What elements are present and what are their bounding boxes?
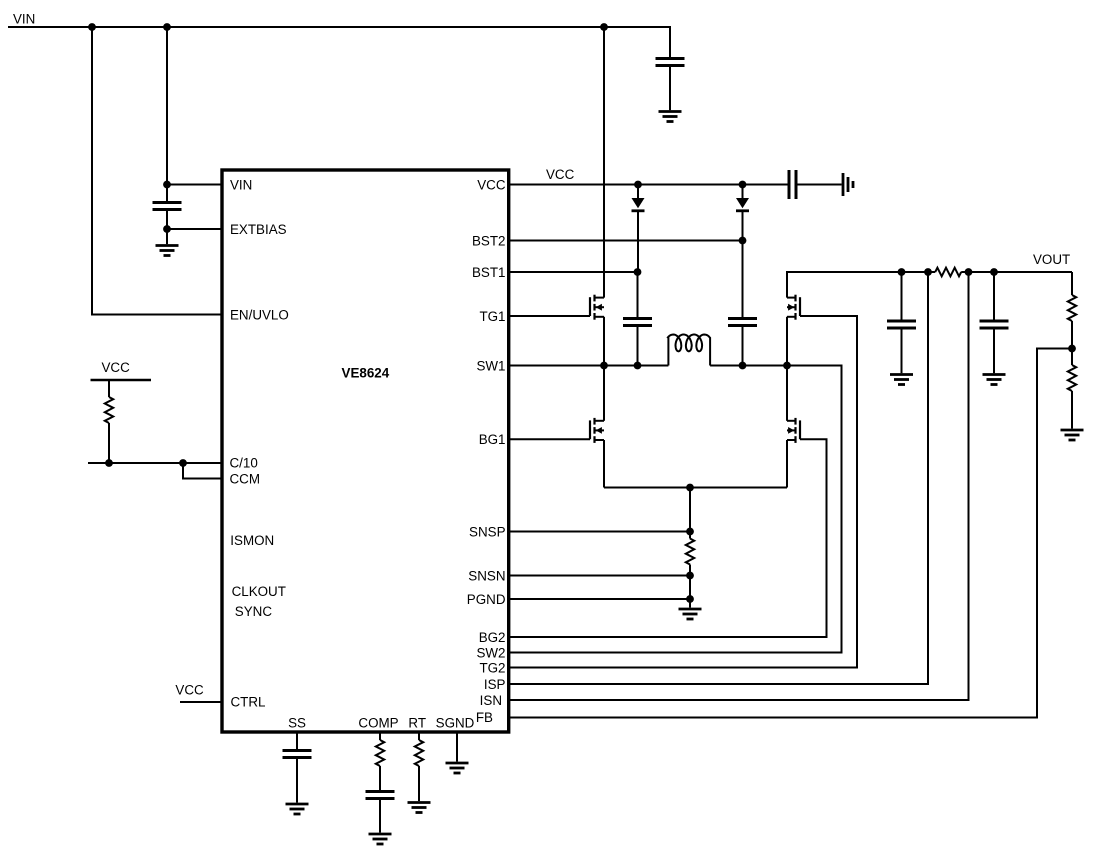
wire Q1 drain to VIN rail xyxy=(603,27,605,298)
node COUT1 junction xyxy=(898,268,906,276)
svg-text:SS: SS xyxy=(288,716,306,731)
transistor Q4 (BG2 low-side boost FET) xyxy=(794,418,796,425)
wire CVIN bottom lead xyxy=(166,211,168,229)
wire VOUT rail right of sense xyxy=(969,271,1073,273)
wire CBST1 top lead xyxy=(637,272,639,317)
svg-text:VCC: VCC xyxy=(102,360,131,375)
resistor RS (output sense, horizontal) xyxy=(935,268,961,277)
node common source junction xyxy=(686,484,694,492)
wire BG2 pin to Q4 gate xyxy=(509,439,827,637)
node RPULL junction xyxy=(105,459,113,467)
wire SGND pin lead xyxy=(456,732,458,762)
wire COUT1 bottom lead xyxy=(901,330,903,374)
wire D2 anode xyxy=(742,185,744,199)
svg-text:VIN: VIN xyxy=(230,177,252,192)
wire CIN bottom lead xyxy=(669,67,671,110)
svg-text:ISMON: ISMON xyxy=(230,533,274,548)
capacitor CVCC (VCC bypass, horizontal) xyxy=(788,170,791,199)
node SNSN junction xyxy=(686,572,694,580)
ground power ground xyxy=(679,608,702,611)
node COUT2 junction xyxy=(990,268,998,276)
resistor RFB2 (divider bottom) xyxy=(1068,365,1076,391)
capacitor CCOMP xyxy=(366,790,395,793)
wire RPULL to C/10 line xyxy=(108,423,110,463)
svg-text:ISP: ISP xyxy=(484,677,506,692)
wire CCM step xyxy=(183,463,222,479)
svg-text:SW1: SW1 xyxy=(476,358,505,373)
ground below COUT1 xyxy=(890,373,913,376)
resistor RPULL (VCC pull-up) xyxy=(105,397,113,423)
svg-text:ISN: ISN xyxy=(480,693,502,708)
node VIN junction at EN/UVLO branch xyxy=(88,23,96,31)
node ISN rail junction xyxy=(965,268,973,276)
svg-text:EN/UVLO: EN/UVLO xyxy=(230,307,289,322)
wire BG1 pin to Q2 gate xyxy=(509,438,590,440)
wire CSS bottom lead xyxy=(296,759,298,803)
ground below RRT xyxy=(408,801,431,804)
IC U1 VE8624 body xyxy=(222,170,509,732)
ground below SGND xyxy=(446,762,469,765)
wire SW1 pin xyxy=(509,365,669,367)
svg-text:CTRL: CTRL xyxy=(231,695,266,710)
wire COUT2 top lead xyxy=(993,272,995,320)
node FB tap junction xyxy=(1068,345,1076,353)
resistor RSNS (current sense) xyxy=(686,539,694,565)
node SNSP junction xyxy=(686,528,694,536)
svg-text:C/10: C/10 xyxy=(230,456,258,471)
wire ISN pin to sense- xyxy=(509,272,969,700)
wire source node to SNSP xyxy=(689,488,691,532)
svg-text:TG2: TG2 xyxy=(479,660,505,675)
capacitor CBST2 xyxy=(728,317,757,320)
svg-text:VIN: VIN xyxy=(13,12,35,27)
node CCM branch junction xyxy=(179,459,187,467)
capacitor COUT1 xyxy=(887,320,916,323)
node CBST2-SW2 junction xyxy=(739,362,747,370)
svg-text:VE8624: VE8624 xyxy=(342,366,390,381)
transistor Q1 (TG1 high-side buck FET) xyxy=(593,295,595,302)
wire CBST1 bottom lead xyxy=(637,327,639,366)
wire C/10 horizontal xyxy=(88,462,222,464)
svg-text:BST1: BST1 xyxy=(472,265,506,280)
wire Q1 source to SW1 xyxy=(603,317,605,366)
node BST1 junction xyxy=(634,268,642,276)
wire VOUT corner xyxy=(1071,272,1073,295)
wire VCC pin to bypass cap xyxy=(509,184,789,186)
ground below CCOMP xyxy=(369,833,392,836)
wire EN/UVLO vertical drop xyxy=(91,27,93,315)
resistor RFB1 (divider top) xyxy=(1068,295,1076,321)
wire TG1 pin to Q1 gate xyxy=(509,315,590,317)
svg-text:COMP: COMP xyxy=(358,716,398,731)
resistor RRT (oscillator) xyxy=(415,740,423,766)
node PGND junction xyxy=(686,595,694,603)
svg-text:VCC: VCC xyxy=(175,682,204,697)
wire BST2 pin xyxy=(509,240,743,242)
node SW1 junction xyxy=(600,362,608,370)
node VIN junction at Q1 drain branch xyxy=(600,23,608,31)
svg-text:PGND: PGND xyxy=(467,592,506,607)
wire VIN rail corner to input cap xyxy=(669,26,671,57)
node VCC diode D2 junction xyxy=(739,181,747,189)
wire BST1 pin xyxy=(509,271,638,273)
wire COUT1 top lead xyxy=(901,272,903,320)
wire CVIN top lead xyxy=(166,185,168,202)
svg-text:RT: RT xyxy=(408,716,426,731)
wire SW2 segment inductor to Q3/Q4 rail xyxy=(710,365,787,367)
wire Q2 source down xyxy=(603,440,605,488)
wire TG2 pin to Q3 gate xyxy=(509,316,857,668)
svg-text:CCM: CCM xyxy=(230,471,261,486)
node BST2 junction xyxy=(739,237,747,245)
wire RS left lead xyxy=(928,271,935,273)
wire RRT to ground xyxy=(418,766,420,801)
wire COUT2 bottom lead xyxy=(993,330,995,374)
svg-text:SGND: SGND xyxy=(436,716,475,731)
svg-text:VOUT: VOUT xyxy=(1033,252,1070,267)
capacitor CSS (soft start) xyxy=(283,749,312,752)
wire CTRL stub xyxy=(180,701,222,703)
node SW2 rail junction xyxy=(783,362,791,370)
svg-text:FB: FB xyxy=(476,710,493,725)
wire D1 anode xyxy=(637,185,639,199)
capacitor CBST1 xyxy=(623,317,652,320)
node VIN pin junction xyxy=(163,181,171,189)
wire SW2 pin to SW2 node xyxy=(509,366,842,653)
wire FB pin to divider tap xyxy=(509,349,1072,718)
wire VIN top rail xyxy=(8,26,670,28)
svg-text:SNSP: SNSP xyxy=(469,524,506,539)
wire Q3 source to SW2 xyxy=(786,317,788,366)
transistor Q3 (TG2 high-side boost FET) xyxy=(794,295,796,302)
wire RFB2 to ground xyxy=(1071,391,1073,429)
wire RS right lead xyxy=(961,271,968,273)
wire SS pin lead xyxy=(296,732,298,749)
wire Q3 drain up to VOUT rail xyxy=(787,272,928,298)
node VIN junction at VIN-pin branch xyxy=(163,23,171,31)
wire CBST2 bottom lead xyxy=(742,327,744,366)
wire Q4 source down xyxy=(786,440,788,488)
wire Q4 drain to SW2 xyxy=(786,366,788,421)
ground below CIN xyxy=(659,110,682,113)
transistor Q2 (BG1 low-side buck FET) xyxy=(593,418,595,425)
wire VCC bar to RPULL xyxy=(108,380,110,397)
wire EXTBIAS pin xyxy=(167,228,222,230)
wire Q2/Q4 common source xyxy=(604,487,787,489)
svg-text:BG1: BG1 xyxy=(479,432,506,447)
wire PGND pin xyxy=(509,598,690,600)
resistor RCOMP xyxy=(376,740,384,766)
capacitor COUT2 xyxy=(980,320,1009,323)
wire SNSN pin xyxy=(509,575,690,577)
capacitor CVIN (VIN-EXTBIAS decoupling) xyxy=(153,201,182,204)
wire RFB1 to tap xyxy=(1071,321,1073,365)
ground for CVCC (rotated) xyxy=(842,173,845,196)
wire CVCC to ground xyxy=(796,184,842,186)
wire COMP pin lead xyxy=(379,732,381,740)
svg-text:SYNC: SYNC xyxy=(235,604,273,619)
wire SNSN to PGND xyxy=(689,576,691,600)
wire RT pin lead xyxy=(418,732,420,740)
wire RCOMP to CCOMP xyxy=(379,766,381,790)
ground below divider xyxy=(1061,429,1084,432)
wire SNSP to RSNS xyxy=(689,532,691,539)
svg-text:CLKOUT: CLKOUT xyxy=(232,584,286,599)
wire VIN pin xyxy=(167,184,222,186)
node ISP rail junction xyxy=(924,268,932,276)
svg-text:SW2: SW2 xyxy=(476,645,505,660)
node EXTBIAS junction xyxy=(163,225,171,233)
diode D2 (VCC to BST2) xyxy=(736,198,749,208)
svg-text:TG1: TG1 xyxy=(479,309,505,324)
wire Q2 drain to SW1 xyxy=(603,366,605,421)
ground below COUT2 xyxy=(983,373,1006,376)
wire RSNS to SNSN xyxy=(689,565,691,576)
wire SNSP pin xyxy=(509,531,690,533)
svg-text:BG2: BG2 xyxy=(479,630,506,645)
ground below EXTBIAS cap xyxy=(156,244,179,247)
capacitor CIN (input bypass) xyxy=(656,57,685,60)
inductor L1 xyxy=(668,335,710,366)
wire CBST2 top lead xyxy=(742,241,744,318)
wire EN/UVLO to pin xyxy=(91,314,222,316)
svg-text:BST2: BST2 xyxy=(472,233,506,248)
wire PGND to ground xyxy=(689,599,691,608)
wire EXTBIAS to ground xyxy=(166,229,168,244)
ground below CSS xyxy=(286,803,309,806)
wire ISP pin to sense+ xyxy=(509,272,928,684)
wire VIN drop to VIN pin xyxy=(166,27,168,185)
wire D1 cathode to BST1 node xyxy=(637,211,639,272)
svg-text:SNSN: SNSN xyxy=(468,568,505,583)
svg-text:EXTBIAS: EXTBIAS xyxy=(230,222,287,237)
svg-text:VCC: VCC xyxy=(546,167,575,182)
diode D1 (VCC to BST1) xyxy=(632,198,645,208)
node CBST1-SW1 junction xyxy=(634,362,642,370)
node VCC diode D1 junction xyxy=(634,181,642,189)
wire D2 cathode to BST2 node xyxy=(742,211,744,241)
wire CCOMP bottom lead xyxy=(379,800,381,833)
svg-text:VCC: VCC xyxy=(477,177,506,192)
power rail bar VCC xyxy=(91,379,152,382)
